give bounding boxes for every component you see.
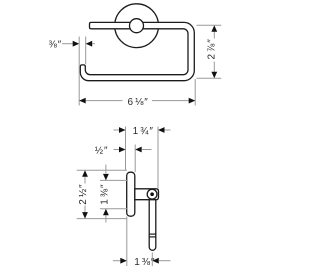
dim 2-7/8 down arrow [211,72,217,79]
dim 1-3/8 side ext bottom [100,208,127,210]
svg-text:6 ⅛ ″: 6 ⅛ ″ [128,97,149,108]
svg-text:2 ⅞ ″: 2 ⅞ ″ [207,39,218,60]
dim 1-3/8 side line [105,165,107,174]
dim 1-3/4 ext left [125,127,127,171]
dim 6-1/8 ext right [194,79,196,106]
side view: horizontal arm [135,189,159,200]
dim 3/8 ext line right [85,37,87,65]
svg-text:2 ½ ″: 2 ½ ″ [78,184,89,205]
top view: hub circle [130,19,144,33]
dim 6-1/8 right arrow [189,98,196,104]
dim 1-3/8 bottom ext right [151,253,153,267]
svg-text:1 ⅜ ″: 1 ⅜ ″ [99,184,110,205]
dim 1/2 right arrow [135,147,142,153]
dim 1-3/8 side ext top [100,179,127,181]
side view: vertical arm [149,198,156,250]
top view: rosette circle [115,4,159,48]
top view: ring bar outline [80,22,194,80]
dim 2-1/2 ext top [77,169,127,171]
svg-text:⅜ ″: ⅜ ″ [48,40,61,51]
dim 1-3/8 bottom right arrow [152,258,159,264]
svg-text:½ ″: ½ ″ [95,146,108,157]
side view: arm joint lines [149,233,156,235]
dim 2-7/8 ext top [197,24,222,26]
dim 1/2 left arrow [114,149,121,151]
dim 2-1/2 ext bottom [77,218,127,220]
dim 1-3/4 ext right [157,127,159,189]
dim 1-3/8 bottom ext left [126,217,128,267]
side view: pivot dot [150,192,154,196]
dim 1/2 ext right [134,145,136,173]
dim 1-3/8 bottom left arrow [113,260,121,262]
side view: pivot knob [147,189,157,199]
dim 3/8 ext line left [78,37,80,106]
dim 6-1/8 line [79,100,122,102]
dim 2-1/2 down arrow [82,212,88,219]
dim 3/8 left arrow [62,43,74,45]
dim 1-3/4 right arrow [158,127,165,133]
svg-text:1 ¾ ″: 1 ¾ ″ [133,126,154,137]
side view: wall plate [127,172,135,216]
dim 1-3/8 side down arrow [103,174,109,181]
dim 2-7/8 line [213,31,215,39]
dim 2-7/8 up arrow [211,25,217,32]
dim 2-1/2 up arrow [82,170,88,177]
dim 3/8 right arrow [86,41,93,47]
dim 1-3/4 left arrow [114,129,121,131]
dim 6-1/8 left arrow [79,98,86,104]
dim 1-3/8 side up arrow [103,209,109,216]
dim 2-7/8 ext bottom [197,77,222,79]
svg-text:1 ⅜ ″: 1 ⅜ ″ [134,257,155,268]
dim 2-1/2 line [84,176,86,184]
